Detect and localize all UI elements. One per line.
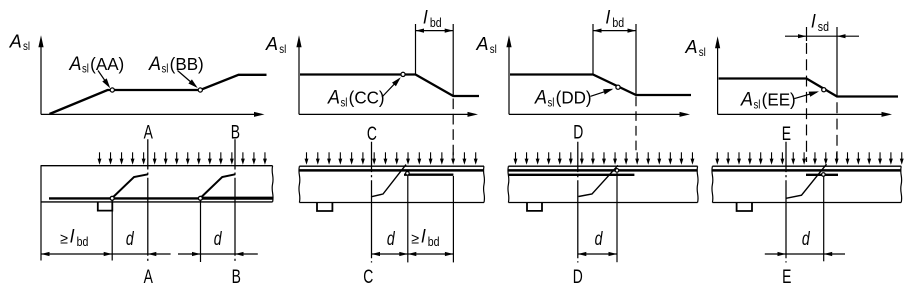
svg-text:A: A bbox=[740, 88, 753, 110]
svg-text:sl: sl bbox=[340, 97, 347, 110]
svg-text:sl: sl bbox=[699, 46, 706, 59]
svg-text:d: d bbox=[387, 228, 395, 250]
panel 2 pointer arrow CC bbox=[382, 79, 399, 97]
panel 2 support pad bbox=[317, 203, 332, 211]
panel 1 extension line at bar end A bbox=[111, 201, 113, 261]
svg-text:A: A bbox=[476, 34, 489, 54]
panel 1 dimension d1 line bbox=[112, 253, 148, 255]
panel 4 x-axis bbox=[718, 113, 883, 115]
panel 4 beam left break line bbox=[711, 166, 714, 202]
panel 2 curtailed top rebar bbox=[404, 174, 453, 176]
panel 2 extension line at crack bbox=[407, 176, 409, 263]
panel 3 distributed load arrows bbox=[515, 152, 517, 160]
panel 1 bar end circle at A bbox=[110, 196, 114, 200]
panel 2 envelope curve bbox=[300, 75, 479, 97]
panel 3 inclined crack line bbox=[579, 165, 619, 196]
panel 3 dimension d line bbox=[578, 253, 617, 255]
panel 1 pointer arrow AA bbox=[98, 71, 109, 86]
panel 1 section line A-A bbox=[147, 139, 149, 263]
panel 1 dimension d1 outer arrow right bbox=[148, 253, 171, 255]
panel 1 bottom rebar segment 1 bbox=[49, 197, 201, 199]
panel 1 beam top edge bbox=[41, 165, 273, 167]
panel 4 dim lsd left extension line bbox=[806, 27, 808, 41]
panel 2 dim lbd line with arrows bbox=[416, 30, 454, 32]
panel 4 dimension d line bbox=[786, 253, 824, 255]
panel 4 beam right break line bbox=[900, 166, 903, 202]
panel 1 bent-up bar at B bbox=[202, 174, 235, 196]
panel 2 dashed drop line bbox=[452, 99, 454, 161]
panel 2 extension line at bar end bbox=[452, 176, 454, 262]
panel 4 beam bottom edge bbox=[712, 202, 901, 204]
svg-text:sl: sl bbox=[547, 97, 554, 110]
panel 3 beam left break line bbox=[507, 166, 510, 202]
panel 3 support pad bbox=[527, 203, 542, 211]
panel 2 x-axis bbox=[299, 113, 469, 115]
svg-text:(DD): (DD) bbox=[556, 87, 592, 108]
svg-text:≥: ≥ bbox=[411, 231, 419, 247]
panel 4 curtailed top rebar bbox=[806, 174, 838, 176]
panel 1 section line B-B bbox=[234, 139, 236, 263]
panel 1 extension line at bar end B bbox=[200, 201, 202, 263]
panel 3 curtailed top rebar bbox=[508, 174, 634, 176]
panel 2 distributed load arrows bbox=[306, 152, 308, 160]
svg-text:A: A bbox=[144, 121, 154, 143]
panel 4 envelope curve bbox=[719, 79, 898, 97]
panel 1 pointer arrow BB bbox=[178, 71, 197, 87]
svg-text:A: A bbox=[9, 31, 22, 51]
panel 3 extension line at crack bbox=[616, 173, 618, 262]
svg-text:E: E bbox=[782, 266, 791, 288]
svg-text:D: D bbox=[573, 266, 583, 288]
panel 1 dimension d2 outer arrow left bbox=[178, 253, 201, 255]
panel 2 inclined crack line bbox=[371, 165, 406, 197]
panel 3 section line D-D bbox=[577, 142, 579, 263]
panel 2 beam top edge bbox=[299, 165, 484, 167]
panel 1 dimension line >=lbd bbox=[41, 253, 112, 255]
panel 4 beam top edge bbox=[712, 165, 901, 167]
panel 4 inclined crack line bbox=[786, 164, 827, 198]
panel 4 dashed drop line left bbox=[806, 43, 808, 162]
panel 1 distributed load arrows bbox=[99, 152, 101, 160]
svg-text:d: d bbox=[126, 228, 134, 250]
panel 1 dimension d2 outer arrow right bbox=[235, 253, 258, 255]
panel 1 curtailment point circle BB bbox=[198, 88, 202, 92]
panel 1 bottom rebar segment 2 (doubled) bbox=[201, 197, 273, 200]
panel 4 pointer arrow EE bbox=[795, 92, 818, 99]
panel 2 beam right break line bbox=[483, 166, 486, 202]
svg-text:A: A bbox=[327, 86, 340, 108]
svg-text:A: A bbox=[265, 34, 278, 54]
panel 2 beam left break line bbox=[298, 166, 301, 202]
svg-text:sl: sl bbox=[82, 63, 89, 76]
panel 4 extension line at crack bbox=[823, 177, 825, 262]
svg-text:(CC): (CC) bbox=[349, 87, 385, 108]
svg-text:d: d bbox=[595, 228, 603, 250]
svg-text:A: A bbox=[148, 52, 161, 74]
panel 1 y-axis (A_sl) bbox=[40, 47, 42, 114]
panel 3 intersection circle bbox=[615, 169, 619, 173]
panel 2 dimension >=lbd line bbox=[408, 253, 454, 255]
panel 1 bent-up bar at A bbox=[114, 174, 148, 196]
svg-text:C: C bbox=[363, 266, 373, 288]
panel 2 beam bottom edge bbox=[299, 202, 484, 204]
svg-text:bd: bd bbox=[428, 234, 440, 249]
panel 3 pointer arrow DD bbox=[591, 89, 612, 96]
panel 2 dim lbd left extension line bbox=[415, 24, 417, 74]
panel 4 dim lsd right extension line bbox=[836, 27, 838, 97]
panel 2 intersection circle bbox=[406, 172, 410, 176]
svg-text:bd: bd bbox=[430, 15, 442, 30]
panel 3 envelope curve bbox=[510, 75, 691, 96]
panel 3 y-axis (A_sl) bbox=[508, 47, 510, 114]
panel 1 dimension d2 line bbox=[201, 253, 236, 255]
panel 1 curtailment point circle AA bbox=[110, 88, 114, 92]
panel 4 support pad bbox=[737, 203, 752, 211]
panel 2 dimension d line bbox=[372, 253, 408, 255]
panel 4 distributed load arrows bbox=[716, 152, 718, 160]
panel 4 dimension d outer arrow left bbox=[765, 253, 786, 255]
panel 4 y-axis (A_sl) bbox=[717, 48, 719, 114]
panel 3 dim lbd left extension line bbox=[592, 24, 594, 74]
panel 4 dashed drop line right bbox=[836, 102, 838, 161]
panel 2 y-axis (A_sl) bbox=[298, 47, 300, 114]
panel 3 beam right break line bbox=[696, 166, 699, 202]
panel 3 dim lbd right extension line bbox=[635, 24, 637, 95]
panel 3 beam top edge bbox=[508, 165, 697, 167]
svg-text:D: D bbox=[573, 121, 583, 143]
panel 2 dim lbd right extension line bbox=[452, 24, 454, 96]
svg-text:≥: ≥ bbox=[60, 231, 68, 247]
svg-text:sl: sl bbox=[753, 98, 760, 111]
panel 2 curtailment point circle CC bbox=[401, 72, 405, 76]
svg-text:(BB): (BB) bbox=[170, 53, 204, 74]
panel 3 top rebar (continuous) bbox=[508, 169, 697, 172]
panel 4 dimension d outer arrow right bbox=[824, 253, 845, 255]
svg-text:d: d bbox=[802, 228, 810, 250]
svg-text:sl: sl bbox=[279, 43, 286, 56]
panel 4 section line E-E bbox=[785, 142, 787, 263]
panel 3 dashed drop line bbox=[635, 97, 637, 153]
svg-text:A: A bbox=[69, 52, 82, 74]
panel 3 beam bottom edge bbox=[508, 202, 697, 204]
svg-text:A: A bbox=[144, 266, 154, 288]
panel 1 beam right break line bbox=[271, 166, 274, 202]
svg-text:A: A bbox=[685, 37, 698, 57]
svg-text:bd: bd bbox=[612, 15, 624, 30]
svg-text:B: B bbox=[232, 266, 241, 288]
panel 3 curtailment point circle DD bbox=[616, 85, 620, 89]
svg-text:d: d bbox=[214, 228, 222, 250]
svg-text:E: E bbox=[782, 123, 791, 145]
panel 1 beam bottom edge bbox=[41, 201, 273, 203]
panel 3 dim lbd line with arrows bbox=[593, 30, 636, 32]
panel 2 top rebar (continuous) bbox=[299, 169, 484, 172]
svg-text:sl: sl bbox=[23, 40, 30, 53]
panel 1 x-axis bbox=[41, 113, 256, 115]
svg-text:C: C bbox=[367, 123, 377, 145]
svg-text:sl: sl bbox=[161, 63, 168, 76]
panel 4 intersection circle bbox=[822, 173, 826, 177]
svg-text:B: B bbox=[231, 121, 240, 143]
svg-text:A: A bbox=[534, 86, 547, 108]
svg-text:sl: sl bbox=[490, 43, 497, 56]
panel 2 section line C-C bbox=[371, 142, 373, 263]
panel 4 top rebar (continuous) bbox=[712, 169, 901, 172]
svg-text:(AA): (AA) bbox=[90, 53, 124, 74]
panel 4 curtailment point circle EE bbox=[822, 88, 826, 92]
panel 1 envelope curve bbox=[50, 75, 267, 114]
panel 1 beam left edge + extension line bbox=[40, 165, 42, 260]
svg-text:(EE): (EE) bbox=[762, 89, 796, 110]
panel 4 dim lsd line with outer arrows bbox=[785, 35, 859, 37]
panel 3 x-axis bbox=[509, 113, 681, 115]
svg-text:bd: bd bbox=[77, 234, 89, 249]
panel 1 bar end circle at B bbox=[198, 196, 202, 200]
panel 1 support pad bbox=[98, 202, 113, 210]
svg-text:sd: sd bbox=[818, 19, 829, 34]
